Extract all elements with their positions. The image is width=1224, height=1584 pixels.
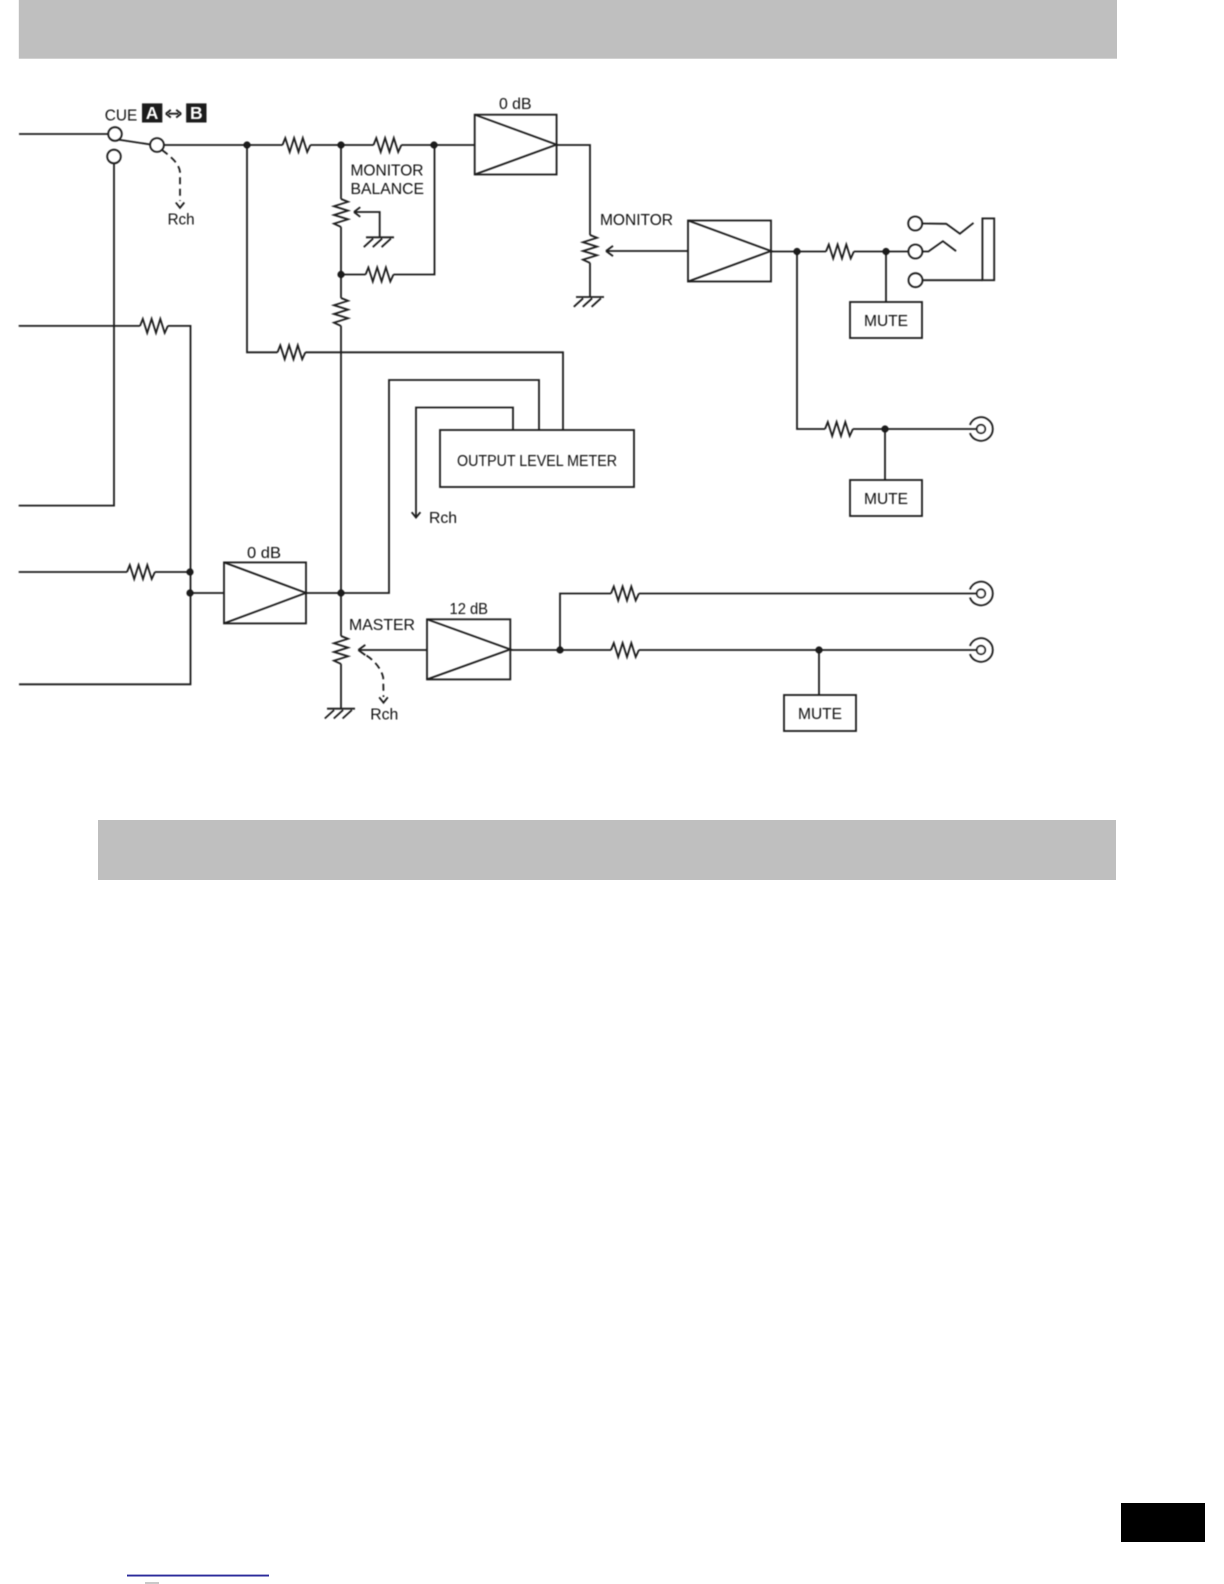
svg-text:Rch: Rch xyxy=(429,510,457,527)
MUTE3 box xyxy=(784,695,856,731)
amp U1 triangle xyxy=(475,115,557,175)
wire left input2 through resistor xyxy=(19,325,140,327)
wire node J10 down to master pot xyxy=(340,593,342,636)
wire R10 to RCA jack J14 xyxy=(639,593,977,595)
ground G1 xyxy=(364,237,394,247)
CUE B key black box xyxy=(186,103,206,122)
svg-text:MUTE: MUTE xyxy=(864,313,908,330)
switch contact B circle xyxy=(107,150,121,164)
wire node J13 up to L out xyxy=(560,594,611,651)
resistor R6 xyxy=(825,422,853,436)
wire R4 down to node J10 xyxy=(340,326,342,593)
CUE A key black box xyxy=(142,103,162,122)
resistor R7 xyxy=(140,319,168,333)
svg-text:MUTE: MUTE xyxy=(798,706,842,723)
node J11 xyxy=(186,568,193,575)
node J6 xyxy=(882,248,889,255)
node J5 xyxy=(793,248,800,255)
page number black tab xyxy=(1121,1503,1205,1542)
svg-text:BALANCE: BALANCE xyxy=(351,181,425,198)
amp U2 box xyxy=(688,221,771,282)
RCA jack J16 line out R xyxy=(970,638,993,662)
section bar xyxy=(98,820,1116,880)
wire R8 to meter L input xyxy=(305,352,563,430)
phones jack tip terminal circle xyxy=(908,245,922,259)
wire left input3 stub xyxy=(19,571,127,573)
wire VR1 to node J4 xyxy=(340,227,342,275)
svg-text:MUTE: MUTE xyxy=(864,491,908,508)
phones jack tip contact lever xyxy=(923,241,956,251)
dashed Rch arrow from switch xyxy=(162,150,180,201)
node J13 xyxy=(556,646,563,653)
resistor R11 xyxy=(611,643,639,657)
node J2 xyxy=(337,141,344,148)
wire node J13 to R11 xyxy=(560,649,611,651)
wire VR2 to ground G2 xyxy=(589,263,591,297)
wire R7 to vertical bus xyxy=(19,326,191,684)
wire node J8 down to MUTE2 xyxy=(884,429,886,480)
wire R3 up to node J3 xyxy=(394,145,435,275)
pot VR1 monitor balance body xyxy=(340,145,342,199)
node J1 xyxy=(243,141,250,148)
wire node J1 down to meter feed xyxy=(247,145,278,352)
wire meter R path xyxy=(416,408,513,517)
pot VR3 master zigzag xyxy=(334,636,348,664)
pot VR3 wiper arrow wire to amp U4 xyxy=(358,645,427,655)
MUTE1 box xyxy=(850,302,922,338)
wire R11 to node J15 xyxy=(639,649,819,651)
footer text remnant xyxy=(145,1582,159,1584)
resistor R9 xyxy=(127,565,155,579)
wire amp U1 output to monitor pot xyxy=(557,145,590,235)
pot VR1 wiper arrow xyxy=(354,207,380,237)
svg-text:OUTPUT LEVEL METER: OUTPUT LEVEL METER xyxy=(457,453,617,470)
wire node J6 down to MUTE1 xyxy=(885,252,887,303)
svg-text:MASTER: MASTER xyxy=(349,617,415,634)
wire node J3 to amp U1 xyxy=(434,144,475,146)
pot VR2 wiper arrow wire from amp U2 xyxy=(606,246,688,256)
ground G3 xyxy=(325,709,355,719)
header bar xyxy=(19,0,1117,59)
amp U4 box 12dB xyxy=(427,619,510,679)
svg-text:Rch: Rch xyxy=(168,212,195,229)
node J8 xyxy=(881,425,888,432)
pot VR1 zigzag xyxy=(334,199,348,227)
wire R5 to node J6 xyxy=(854,251,886,253)
footer blue rule xyxy=(127,1575,269,1577)
arrowhead meter Rch xyxy=(412,512,421,517)
wire node J6 to jack tip contact xyxy=(886,251,908,253)
phones jack body J7 xyxy=(982,218,994,280)
wire amp U2 output to node J5 xyxy=(771,251,797,253)
amp U1 box 0dB xyxy=(475,115,557,175)
RCA jack J14 line out L xyxy=(970,582,993,606)
MUTE2 box xyxy=(850,480,922,516)
node J4 xyxy=(337,271,344,278)
wire R1 to node J2 xyxy=(310,144,341,146)
switch arm xyxy=(118,140,150,145)
wire R9 to node J11 xyxy=(155,571,190,573)
RCA jack J9 monitor out xyxy=(970,417,993,441)
wire node J15 to RCA jack J16 xyxy=(819,649,977,651)
svg-text:0 dB: 0 dB xyxy=(499,96,532,113)
arrowhead Rch switch xyxy=(176,203,185,208)
wire node J15 down to MUTE3 xyxy=(818,650,820,695)
phones jack ring terminal circle xyxy=(908,217,922,231)
phones jack sleeve wire xyxy=(923,279,983,281)
svg-text:12 dB: 12 dB xyxy=(450,601,489,618)
resistor R1 xyxy=(283,138,311,152)
wire node J5 down to R6 xyxy=(797,252,825,430)
amp U4 triangle xyxy=(427,619,510,679)
wire node J8 to RCA jack J9 xyxy=(885,428,977,430)
svg-text:CUE: CUE xyxy=(105,108,138,125)
wire node J2 to R2 xyxy=(341,144,374,146)
resistor R8 xyxy=(278,345,306,359)
phones jack sleeve terminal circle xyxy=(909,273,923,287)
wire node J12 to amp U3 xyxy=(190,592,224,594)
resistor R10 xyxy=(611,587,639,601)
wire amp U3 output to node J10 xyxy=(306,592,341,594)
node J15 xyxy=(815,646,822,653)
node J12 xyxy=(186,589,193,596)
arrowhead Rch master xyxy=(379,697,388,702)
pot VR2 monitor zigzag xyxy=(583,235,597,263)
node J3 xyxy=(430,141,437,148)
CUE A-B double arrow xyxy=(166,110,181,118)
resistor R3 xyxy=(366,268,394,282)
wire node J1 to R1 xyxy=(247,144,283,146)
resistor R4 xyxy=(334,298,348,326)
resistor R5 xyxy=(826,245,854,259)
wire input stub to CUE switch xyxy=(19,133,108,135)
svg-text:0 dB: 0 dB xyxy=(247,545,281,562)
wire switch pole to node J1 xyxy=(164,144,247,146)
resistor R2 xyxy=(374,138,402,152)
wire R6 to node J8 xyxy=(853,428,885,430)
switch contact A circle xyxy=(108,127,122,141)
wire node J4 to R3 xyxy=(341,274,366,276)
wire contact B down and left to edge xyxy=(19,163,114,505)
wire node J4 down to R4 xyxy=(340,275,342,299)
amp U3 box 0dB xyxy=(224,562,306,623)
switch pole circle xyxy=(150,138,164,152)
svg-text:MONITOR: MONITOR xyxy=(600,212,673,229)
svg-text:B: B xyxy=(190,103,203,123)
wire node J5 to R5 xyxy=(797,251,826,253)
amp U3 triangle xyxy=(224,562,306,623)
wire node J10 to meter L path xyxy=(341,380,539,593)
amp U2 triangle xyxy=(688,221,771,282)
wire amp U4 output to node J13 xyxy=(510,649,560,651)
dashed Rch arrow master xyxy=(367,656,384,698)
phones jack ring contact lever xyxy=(922,223,973,234)
OUTPUT LEVEL METER box xyxy=(440,430,634,487)
svg-text:Rch: Rch xyxy=(370,707,398,724)
svg-text:A: A xyxy=(146,103,159,123)
wire VR3 to ground G3 xyxy=(340,664,342,709)
node J10 xyxy=(337,589,344,596)
ground G2 xyxy=(574,297,604,307)
svg-text:MONITOR: MONITOR xyxy=(351,162,424,179)
wire R2 to node J3 xyxy=(401,144,434,146)
